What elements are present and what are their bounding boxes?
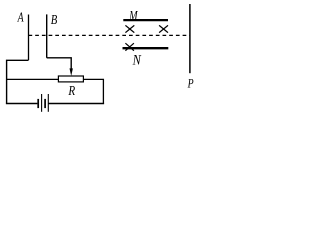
svg-text:N: N bbox=[132, 52, 142, 68]
svg-text:M: M bbox=[129, 8, 139, 23]
svg-text:B: B bbox=[51, 13, 58, 28]
beam axis dashed line bbox=[29, 34, 190, 36]
battery long plate 2 bbox=[47, 94, 49, 112]
bottom wire left segment bbox=[6, 103, 38, 105]
wire resistor right bbox=[83, 79, 103, 103]
field symbol x3 bbox=[125, 43, 133, 51]
battery bbox=[38, 94, 48, 112]
field symbol x2 bbox=[159, 25, 168, 32]
svg-text:P: P bbox=[187, 75, 194, 90]
wire B to wiper bbox=[47, 58, 71, 70]
battery short plate 2 bbox=[44, 99, 46, 108]
resistor R bbox=[58, 76, 83, 82]
field symbol x1 bbox=[125, 25, 134, 32]
battery short plate 1 bbox=[37, 99, 39, 108]
plate M (top bar) bbox=[123, 19, 168, 21]
wire A to left rail bbox=[7, 60, 29, 103]
plate B bbox=[46, 14, 48, 57]
wire resistor left bbox=[6, 78, 58, 80]
wiper arrow bbox=[70, 68, 73, 76]
plate A bbox=[28, 15, 30, 61]
bottom wire right segment bbox=[48, 103, 104, 105]
battery long plate 1 bbox=[41, 94, 43, 112]
svg-text:R: R bbox=[68, 84, 76, 99]
plate N (bottom bar) bbox=[123, 47, 169, 49]
svg-text:A: A bbox=[17, 11, 24, 26]
screen P bbox=[189, 4, 191, 73]
